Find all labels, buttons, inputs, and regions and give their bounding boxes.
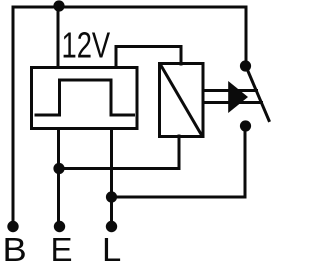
wire top supply rail bbox=[13, 7, 246, 221]
relay coil K1 (box with diagonal) bbox=[160, 64, 204, 137]
actuator linkage lower line (K1 to S1) bbox=[203, 101, 262, 104]
pulse generator U1 (box) bbox=[32, 68, 138, 129]
wire relay coil bottom pin to junction J2 bbox=[60, 136, 179, 169]
switch S1 lower contact dot bbox=[240, 120, 251, 131]
node junction J2 (E net) bbox=[53, 163, 64, 174]
svg-text:L: L bbox=[102, 232, 121, 263]
wire pulse generator output to relay coil top (node over 12V label) bbox=[116, 47, 181, 68]
svg-text:B: B bbox=[3, 232, 27, 263]
svg-text:E: E bbox=[51, 231, 73, 263]
relay coil K1 diagonal line bbox=[161, 66, 202, 136]
terminal B dot bbox=[7, 221, 18, 232]
svg-text:12V: 12V bbox=[62, 25, 111, 66]
wire junction J1 to pulse generator top pin bbox=[57, 7, 60, 67]
actuator arrow head (pointing at switch arm) bbox=[228, 81, 248, 113]
wire pulse generator bottom-left pin through J2 to terminal E bbox=[57, 129, 60, 222]
terminal E dot bbox=[54, 221, 65, 232]
node junction J1 (supply to pulse generator) bbox=[53, 0, 64, 11]
switch S1 movable arm bbox=[248, 70, 270, 121]
node junction J3 (L net) bbox=[106, 191, 117, 202]
wire junction J3 to switch lower contact bbox=[112, 131, 245, 197]
switch S1 upper contact dot bbox=[240, 60, 251, 71]
wire pulse generator bottom-right pin through J3 to terminal L bbox=[110, 129, 113, 222]
pulse generator U1 square-wave symbol bbox=[36, 80, 134, 115]
actuator linkage upper line (K1 to S1) bbox=[203, 89, 257, 92]
terminal L dot bbox=[106, 221, 117, 232]
